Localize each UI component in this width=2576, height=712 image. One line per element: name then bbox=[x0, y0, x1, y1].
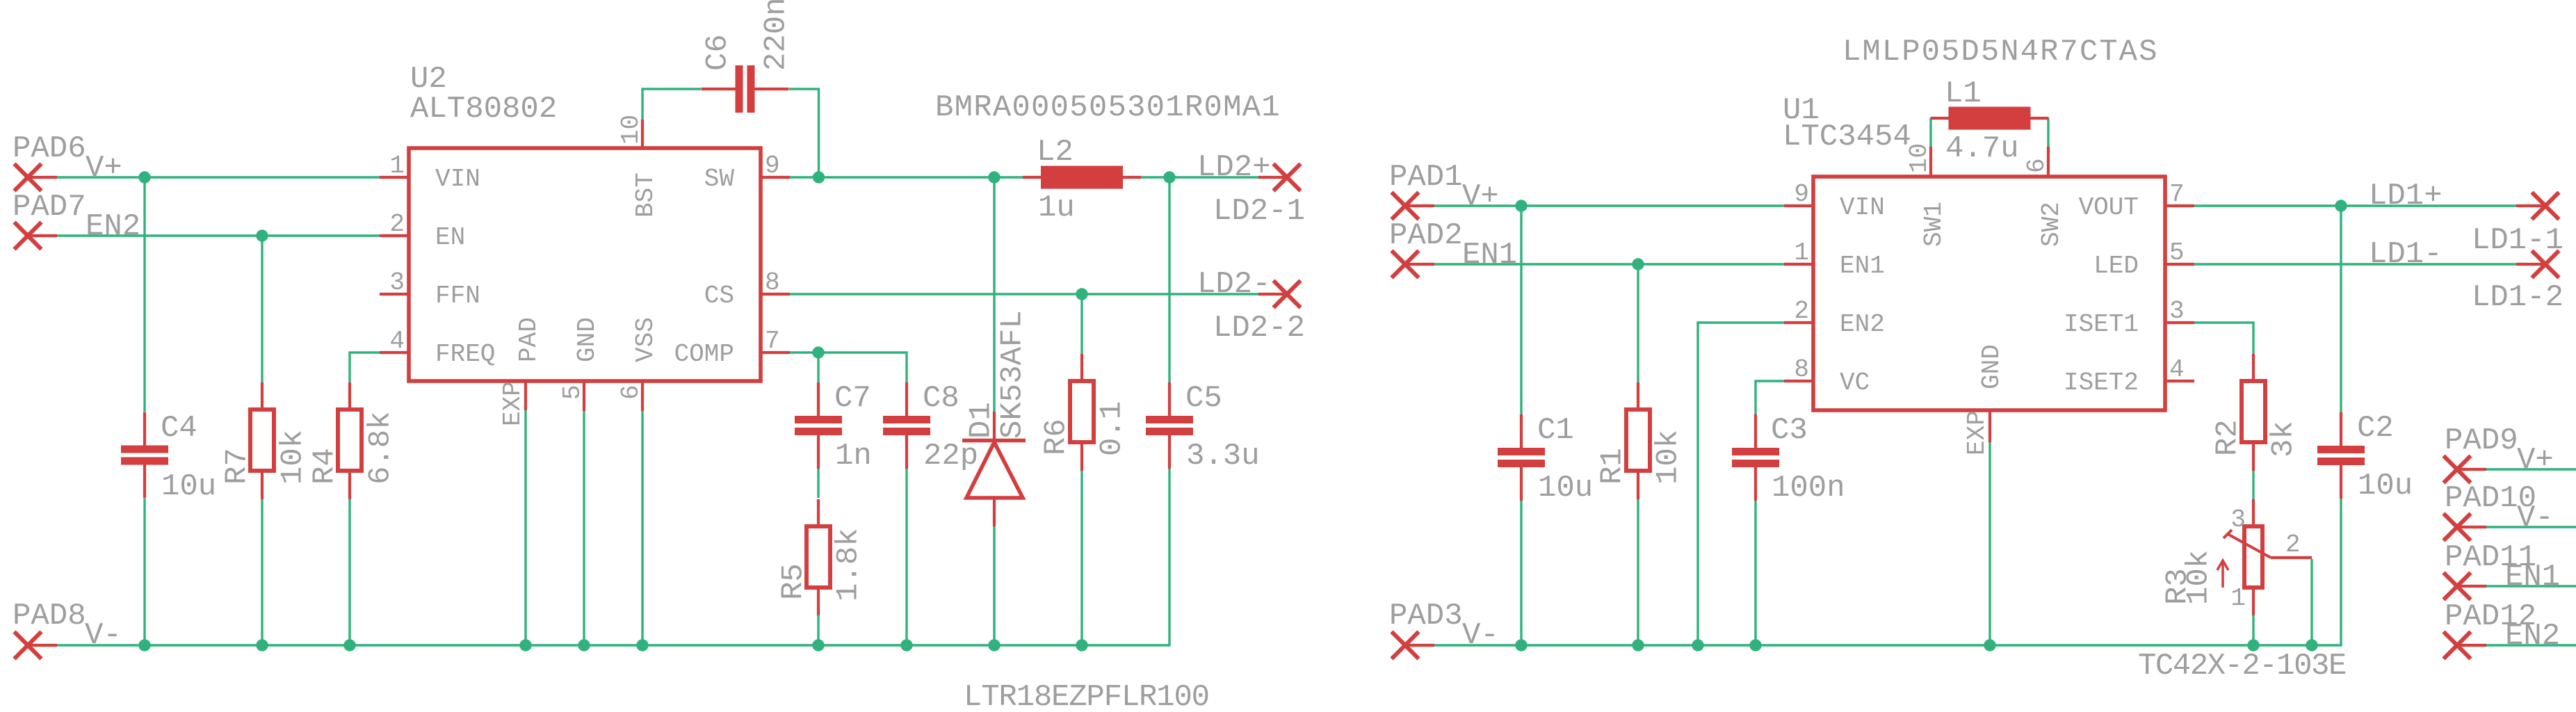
resistor R2 bbox=[2242, 354, 2265, 471]
wire V- to edge bbox=[2486, 526, 2576, 528]
svg-text:VSS: VSS bbox=[631, 317, 660, 362]
wire V- rail left bbox=[57, 468, 1169, 645]
svg-text:CS: CS bbox=[704, 282, 734, 310]
pad cross LD2+ bbox=[1274, 164, 1301, 191]
svg-text:SW: SW bbox=[704, 165, 735, 193]
svg-text:PAD8: PAD8 bbox=[13, 599, 86, 633]
junction CS/R6 bbox=[1076, 288, 1087, 300]
pad PAD1 bbox=[1392, 193, 1435, 220]
capacitor C5 bbox=[1146, 382, 1193, 469]
svg-text:10: 10 bbox=[617, 115, 645, 145]
svg-text:1: 1 bbox=[2230, 584, 2246, 613]
capacitor C8 bbox=[883, 382, 930, 469]
svg-text:EN1: EN1 bbox=[1462, 238, 1517, 273]
svg-text:LD1+: LD1+ bbox=[2369, 179, 2443, 213]
svg-text:VOUT: VOUT bbox=[2079, 193, 2139, 222]
pin 7 stub (COMP) bbox=[761, 351, 790, 354]
svg-text:C4: C4 bbox=[161, 411, 197, 446]
svg-text:5: 5 bbox=[558, 385, 587, 400]
svg-text:SW1: SW1 bbox=[1920, 202, 1948, 247]
pad PAD7 bbox=[15, 222, 58, 250]
svg-text:2: 2 bbox=[1794, 297, 1809, 325]
pad cross LD1+ bbox=[2532, 193, 2559, 220]
pin 10 stub (SW1) bbox=[1929, 147, 1932, 177]
svg-text:1u: 1u bbox=[1038, 191, 1075, 225]
pin 10 stub (BST) bbox=[641, 120, 644, 148]
svg-text:7: 7 bbox=[765, 327, 780, 355]
svg-text:EN2: EN2 bbox=[86, 209, 140, 244]
svg-text:1: 1 bbox=[1794, 238, 1809, 267]
wire R4 to rail bbox=[348, 499, 350, 645]
svg-text:3: 3 bbox=[2169, 297, 2185, 325]
wire D1 to rail bbox=[993, 526, 995, 645]
svg-text:SK53AFL: SK53AFL bbox=[995, 310, 1030, 439]
wire GND U2 to rail bbox=[583, 411, 585, 645]
junction rail C8 bbox=[900, 639, 912, 651]
pin 6 stub (SW2) bbox=[2047, 147, 2050, 177]
wire COMP to C7 bbox=[817, 353, 819, 382]
pad stub LD1+ bbox=[2516, 204, 2545, 207]
wire R1 to rail bbox=[1637, 499, 1639, 645]
svg-text:ISET1: ISET1 bbox=[2064, 310, 2139, 339]
junction rail EXP bbox=[519, 639, 531, 651]
junction rail C1 bbox=[1515, 639, 1527, 651]
wire C8 to rail bbox=[905, 469, 907, 645]
svg-text:C2: C2 bbox=[2357, 411, 2394, 446]
junction rail VSS bbox=[636, 639, 648, 651]
pin 1 stub (EN1) bbox=[1784, 263, 1813, 266]
pin 3 stub (FFN) bbox=[380, 293, 409, 296]
pot arrow bbox=[2217, 560, 2228, 588]
pin 9 stub (SW) bbox=[761, 176, 790, 179]
junction rail EN2 bbox=[1692, 639, 1703, 651]
wire VOUT to C2 bbox=[2340, 206, 2342, 412]
svg-text:4: 4 bbox=[389, 327, 405, 355]
svg-text:EN: EN bbox=[435, 223, 465, 252]
svg-text:LD1-2: LD1-2 bbox=[2472, 280, 2563, 315]
pin 3 stub (ISET1) bbox=[2165, 321, 2194, 324]
svg-text:GND: GND bbox=[573, 317, 601, 362]
svg-text:L1: L1 bbox=[1945, 76, 1982, 111]
wire R2 to R3 bbox=[2252, 471, 2254, 499]
svg-text:6: 6 bbox=[617, 385, 645, 400]
pin 6 stub (VSS) bbox=[641, 381, 644, 411]
svg-text:PAD3: PAD3 bbox=[1389, 599, 1463, 633]
svg-text:3k: 3k bbox=[2266, 421, 2301, 458]
junction EN1/R1 bbox=[1632, 258, 1644, 270]
pad PAD2 bbox=[1392, 251, 1435, 278]
pad PAD11 bbox=[2444, 573, 2487, 600]
junction rail C4 bbox=[138, 639, 150, 651]
wire V- rail right bbox=[1434, 498, 2341, 645]
pad PAD10 bbox=[2444, 514, 2487, 541]
wire EN2 to edge bbox=[2486, 644, 2576, 646]
resistor R6 bbox=[1070, 354, 1094, 471]
junction rail R7 bbox=[256, 639, 268, 651]
wire V+ to C1 bbox=[1520, 206, 1522, 414]
svg-text:EXP: EXP bbox=[1963, 410, 1991, 455]
wire VSS U2 to rail bbox=[641, 411, 643, 645]
svg-text:22p: 22p bbox=[923, 439, 978, 474]
wire EN1 to edge bbox=[2486, 585, 2576, 587]
svg-text:R5: R5 bbox=[776, 563, 811, 600]
wire V+ right horizontal bbox=[1434, 204, 1784, 207]
wire V+ to edge bbox=[2486, 468, 2576, 470]
svg-text:4: 4 bbox=[2169, 355, 2185, 384]
svg-text:VIN: VIN bbox=[1840, 193, 1885, 222]
svg-text:8: 8 bbox=[765, 268, 780, 297]
pad PAD9 bbox=[2444, 456, 2487, 483]
svg-text:PAD9: PAD9 bbox=[2445, 423, 2518, 458]
junction rail R1 bbox=[1632, 639, 1644, 651]
junction COMP/C7 bbox=[812, 346, 824, 358]
svg-text:3.3u: 3.3u bbox=[1186, 439, 1260, 474]
svg-text:C1: C1 bbox=[1537, 413, 1574, 448]
svg-text:EXP: EXP bbox=[499, 381, 527, 426]
resistor R5 bbox=[807, 499, 830, 616]
pin 8 stub (VC) bbox=[1784, 380, 1813, 382]
svg-text:LTC3454: LTC3454 bbox=[1783, 120, 1911, 154]
svg-text:V+: V+ bbox=[1462, 179, 1499, 214]
wire SW1 to L1 bbox=[1929, 118, 1931, 147]
wire EXP U2 to rail bbox=[524, 410, 526, 645]
svg-text:10u: 10u bbox=[161, 469, 216, 504]
junction rail R3 bbox=[2247, 639, 2259, 651]
svg-text:2: 2 bbox=[389, 210, 405, 238]
wire EN2 right net bbox=[1698, 323, 1784, 645]
svg-text:VC: VC bbox=[1840, 369, 1870, 397]
junction rail R6 bbox=[1076, 639, 1087, 651]
svg-text:D1: D1 bbox=[964, 402, 998, 439]
svg-text:C5: C5 bbox=[1185, 381, 1222, 416]
wire C4 to rail bbox=[143, 499, 145, 645]
wire C6 to SW bbox=[789, 89, 819, 177]
svg-text:10k: 10k bbox=[1651, 430, 1685, 485]
svg-text:V-: V- bbox=[85, 618, 122, 653]
svg-text:PAD6: PAD6 bbox=[13, 131, 86, 166]
svg-text:SW2: SW2 bbox=[2037, 202, 2066, 247]
svg-text:2: 2 bbox=[2285, 531, 2301, 559]
wire C1 to rail bbox=[1520, 501, 1522, 645]
junction SW/C5 bbox=[1163, 171, 1175, 183]
pad PAD6 bbox=[15, 164, 58, 191]
svg-text:GND: GND bbox=[1977, 344, 2006, 389]
wire EN2 to R7 bbox=[261, 236, 263, 383]
svg-text:10: 10 bbox=[1905, 143, 1934, 173]
svg-text:10u: 10u bbox=[1538, 471, 1593, 505]
pad PAD8 bbox=[15, 632, 58, 659]
svg-text:LD2-: LD2- bbox=[1197, 267, 1271, 302]
junction rail R4 bbox=[343, 639, 355, 651]
wire VC to C3 bbox=[1756, 381, 1784, 414]
svg-text:R2: R2 bbox=[2210, 419, 2245, 456]
svg-text:V+: V+ bbox=[86, 151, 122, 186]
IC U1 body bbox=[1813, 177, 2165, 410]
svg-text:100n: 100n bbox=[1772, 471, 1845, 505]
svg-text:BMRA000505301R0MA1: BMRA000505301R0MA1 bbox=[935, 90, 1281, 125]
svg-text:9: 9 bbox=[765, 152, 780, 180]
svg-text:V+: V+ bbox=[2517, 443, 2554, 478]
pad PAD12 bbox=[2444, 632, 2487, 659]
junction V+/C4 bbox=[138, 171, 150, 183]
capacitor C6 bbox=[702, 65, 789, 113]
svg-text:LMLP05D5N4R7CTAS: LMLP05D5N4R7CTAS bbox=[1842, 35, 2158, 70]
junction rail pot wiper bbox=[2306, 639, 2317, 651]
junction rail D1 bbox=[988, 639, 1000, 651]
junction rail GND bbox=[578, 639, 590, 651]
wire SW net bbox=[790, 176, 1258, 178]
capacitor C2 bbox=[2317, 412, 2365, 499]
resistor R1 bbox=[1626, 382, 1650, 499]
svg-text:10k: 10k bbox=[2181, 550, 2216, 605]
svg-text:R6: R6 bbox=[1039, 419, 1074, 455]
svg-text:10k: 10k bbox=[275, 430, 310, 485]
svg-text:V-: V- bbox=[1462, 618, 1499, 653]
svg-text:COMP: COMP bbox=[674, 340, 734, 369]
potentiometer R3 bbox=[2223, 499, 2312, 616]
svg-text:EN2: EN2 bbox=[2505, 619, 2560, 654]
diode D1 bbox=[962, 412, 1026, 526]
junction VOUT/C2 bbox=[2335, 200, 2347, 211]
svg-text:7: 7 bbox=[2169, 180, 2185, 209]
svg-text:C8: C8 bbox=[923, 381, 959, 416]
wire FREQ net bbox=[350, 353, 380, 383]
junction rail R5 bbox=[812, 639, 824, 651]
wire C3 to rail bbox=[1754, 501, 1756, 645]
svg-text:3: 3 bbox=[389, 268, 405, 297]
svg-text:ISET2: ISET2 bbox=[2064, 369, 2139, 397]
pin 5 stub (GND) bbox=[583, 381, 585, 411]
pin 7 stub (VOUT) bbox=[2165, 204, 2194, 207]
wire EN1 horizontal bbox=[1434, 263, 1784, 265]
wire BST to C6 bbox=[642, 89, 701, 120]
svg-text:1: 1 bbox=[389, 152, 405, 180]
resistor R4 bbox=[338, 382, 362, 499]
junction rail C3 bbox=[1749, 639, 1761, 651]
svg-text:LTR18EZPFLR100: LTR18EZPFLR100 bbox=[964, 680, 1209, 712]
pin 5 stub (LED) bbox=[2165, 263, 2194, 266]
pin 9 stub (VIN U1) bbox=[1784, 204, 1813, 207]
wire LED net bbox=[2194, 263, 2516, 265]
pin 2 stub (EN2) bbox=[1784, 321, 1813, 324]
pin EXP stub U2 bbox=[524, 381, 527, 410]
svg-text:ALT80802: ALT80802 bbox=[410, 92, 557, 127]
svg-text:LD2-2: LD2-2 bbox=[1213, 311, 1305, 346]
wire SW to D1 bbox=[993, 177, 995, 412]
wire R3 to rail bbox=[2252, 615, 2254, 645]
svg-text:8: 8 bbox=[1794, 355, 1809, 384]
svg-text:3: 3 bbox=[2230, 505, 2246, 534]
wire R5 to rail bbox=[817, 615, 819, 645]
svg-text:EN1: EN1 bbox=[1840, 252, 1885, 280]
wire COMP net bbox=[790, 353, 907, 382]
wire R6 to rail bbox=[1080, 471, 1083, 645]
svg-text:FFN: FFN bbox=[435, 282, 480, 310]
pin 4 stub (ISET2) bbox=[2165, 380, 2194, 382]
wire SW2 to L1 bbox=[2047, 118, 2049, 147]
pad stub LD2+ bbox=[1258, 176, 1287, 179]
wire V+ horizontal bbox=[57, 176, 380, 178]
junction SW/D1 bbox=[988, 171, 1000, 183]
pin EXP stub U1 bbox=[1988, 410, 1991, 442]
svg-text:0.1: 0.1 bbox=[1094, 401, 1129, 456]
svg-text:R7: R7 bbox=[220, 448, 254, 485]
svg-text:5: 5 bbox=[2169, 238, 2185, 267]
svg-text:VIN: VIN bbox=[435, 165, 480, 193]
svg-text:V-: V- bbox=[2517, 501, 2554, 535]
wire SW to C5 bbox=[1168, 177, 1170, 382]
wire CS to R6 bbox=[1080, 294, 1083, 354]
wire ISET1 to R2 bbox=[2194, 323, 2253, 355]
svg-text:9: 9 bbox=[1794, 180, 1809, 209]
svg-text:6: 6 bbox=[2023, 158, 2051, 173]
svg-text:1.8k: 1.8k bbox=[831, 528, 866, 601]
svg-text:PAD: PAD bbox=[515, 317, 543, 362]
capacitor C1 bbox=[1498, 414, 1545, 501]
pin 4 stub (FREQ) bbox=[380, 351, 409, 354]
capacitor C4 bbox=[121, 412, 168, 499]
svg-text:LD2+: LD2+ bbox=[1197, 150, 1271, 185]
wire VOUT net bbox=[2194, 204, 2516, 207]
svg-text:PAD7: PAD7 bbox=[13, 190, 86, 225]
resistor R7 bbox=[250, 382, 274, 499]
wire EN2 horizontal bbox=[57, 234, 380, 236]
wire EN1 to R1 bbox=[1637, 264, 1639, 383]
svg-text:1n: 1n bbox=[835, 439, 872, 474]
pad PAD3 bbox=[1392, 632, 1435, 659]
svg-text:LED: LED bbox=[2093, 252, 2139, 280]
svg-text:EN1: EN1 bbox=[2505, 560, 2560, 594]
svg-text:C6: C6 bbox=[700, 34, 735, 71]
svg-text:L2: L2 bbox=[1037, 135, 1074, 170]
svg-text:220n: 220n bbox=[759, 0, 793, 71]
svg-text:R4: R4 bbox=[307, 448, 342, 485]
junction EN2/R7 bbox=[256, 229, 268, 241]
wire C7 to R5 bbox=[817, 469, 819, 498]
pad cross LD2- bbox=[1274, 281, 1301, 308]
svg-text:PAD1: PAD1 bbox=[1389, 160, 1463, 195]
capacitor C7 bbox=[795, 382, 842, 469]
inductor L1 bbox=[1931, 107, 2049, 130]
wire EXP U1 to rail bbox=[1988, 442, 1991, 645]
junction V+/C1 bbox=[1515, 200, 1527, 211]
svg-text:LD1-: LD1- bbox=[2369, 237, 2443, 272]
pin 1 stub (VIN) bbox=[380, 176, 409, 179]
svg-text:10u: 10u bbox=[2358, 469, 2413, 503]
wire R7 to rail bbox=[261, 499, 263, 645]
pad stub LD2- bbox=[1258, 293, 1287, 296]
inductor L2 bbox=[1023, 166, 1141, 189]
IC U2 body bbox=[409, 148, 761, 381]
wire CS net bbox=[790, 293, 1258, 295]
junction SW/C6 bbox=[813, 171, 825, 183]
svg-text:FREQ: FREQ bbox=[435, 340, 495, 369]
svg-text:PAD2: PAD2 bbox=[1389, 218, 1463, 253]
svg-text:LD2-1: LD2-1 bbox=[1213, 194, 1305, 229]
junction rail EXP U1 bbox=[1984, 639, 1995, 651]
pad stub LD1- bbox=[2516, 263, 2545, 266]
svg-text:6.8k: 6.8k bbox=[363, 411, 398, 485]
svg-text:R1: R1 bbox=[1595, 448, 1630, 485]
svg-text:TC42X-2-103E: TC42X-2-103E bbox=[2138, 649, 2346, 683]
svg-text:EN2: EN2 bbox=[1840, 310, 1885, 339]
pad cross LD1- bbox=[2532, 251, 2559, 278]
svg-text:LD1-1: LD1-1 bbox=[2472, 223, 2563, 258]
wire pot wiper to rail bbox=[2310, 559, 2312, 645]
svg-text:BST: BST bbox=[631, 172, 660, 218]
svg-text:C7: C7 bbox=[834, 381, 871, 416]
capacitor C3 bbox=[1732, 414, 1779, 501]
wire V+ to C4 bbox=[143, 177, 145, 412]
pin 2 stub (EN) bbox=[380, 234, 409, 237]
svg-text:C3: C3 bbox=[1771, 413, 1808, 448]
pin 8 stub (CS) bbox=[761, 293, 790, 296]
svg-text:4.7u: 4.7u bbox=[1945, 131, 2019, 166]
